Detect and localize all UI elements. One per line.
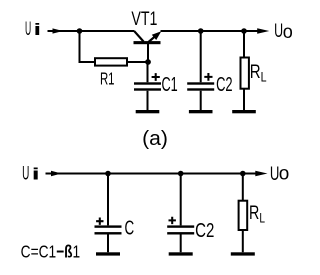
svg-text:i: i bbox=[34, 20, 42, 39]
svg-text:(a): (a) bbox=[142, 127, 168, 149]
svg-text:o: o bbox=[279, 164, 290, 185]
svg-text:C2: C2 bbox=[195, 219, 214, 242]
svg-text:RL: RL bbox=[250, 61, 267, 84]
svg-text:U: U bbox=[274, 21, 283, 42]
svg-text:R1: R1 bbox=[100, 69, 115, 89]
svg-text:RL: RL bbox=[249, 202, 265, 226]
svg-text:U: U bbox=[22, 163, 29, 184]
svg-text:o: o bbox=[283, 20, 293, 42]
svg-text:C=C1−ß1: C=C1−ß1 bbox=[21, 243, 81, 262]
svg-text:C2: C2 bbox=[216, 73, 233, 96]
svg-text:C1: C1 bbox=[162, 73, 178, 96]
svg-text:i: i bbox=[32, 165, 40, 184]
svg-text:VT1: VT1 bbox=[131, 8, 157, 30]
svg-text:U: U bbox=[25, 20, 31, 41]
svg-text:C: C bbox=[124, 217, 134, 239]
